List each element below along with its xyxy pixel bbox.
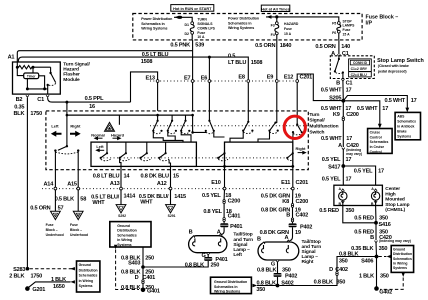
note box Ground Distribution Schematics (right) bbox=[391, 246, 413, 273]
svg-text:P402: P402 bbox=[300, 225, 312, 231]
svg-text:Schematics in: Schematics in bbox=[214, 285, 238, 289]
svg-text:F6: F6 bbox=[332, 31, 336, 35]
fuse HAZARD 15A bbox=[271, 17, 299, 40]
svg-text:HAZARD: HAZARD bbox=[284, 22, 299, 26]
resistor (flasher internal) bbox=[16, 62, 51, 69]
wire 0.5 YEL 17 to left CHMSL lamp bbox=[322, 166, 352, 185]
svg-text:WHT: WHT bbox=[140, 199, 153, 205]
off-page connector triangle S292 bbox=[116, 205, 126, 219]
svg-text:C402: C402 bbox=[296, 212, 309, 218]
svg-text:E9: E9 bbox=[267, 74, 274, 80]
wire S205 down to K9 C200 bbox=[342, 101, 344, 117]
wire 0.5 DK BLU/WHT 1415 (A12) bbox=[139, 189, 186, 205]
svg-text:and Turn: and Turn bbox=[233, 237, 253, 243]
node S416 bbox=[374, 221, 391, 228]
svg-text:250: 250 bbox=[145, 255, 154, 261]
wire 0.8 BLK 350 S402 to ground distribution bbox=[253, 284, 278, 288]
stop lamp switch dashed box bbox=[330, 56, 374, 79]
svg-text:Module: Module bbox=[63, 77, 80, 83]
note Power Distribution Schematics (left) bbox=[141, 17, 172, 31]
svg-text:in Antilock: in Antilock bbox=[397, 125, 414, 129]
svg-text:0.5: 0.5 bbox=[228, 53, 235, 59]
switch (flasher internal contacts) bbox=[47, 67, 56, 94]
routing staircase (internal) bbox=[153, 131, 269, 142]
pin E9 bbox=[267, 74, 278, 82]
svg-text:CORN LPS: CORN LPS bbox=[197, 26, 215, 30]
svg-text:P401: P401 bbox=[215, 257, 227, 263]
wire 0.8 BLK 250 S403 to D C401 bbox=[121, 267, 155, 284]
connector row C201 dotted (lower) bbox=[42, 188, 300, 190]
lower switch unit 5 bbox=[217, 152, 228, 161]
label Fuse Block Underhood (A14) bbox=[46, 223, 64, 237]
svg-text:in Wiring: in Wiring bbox=[117, 238, 132, 242]
wire 0.5 LT BLU 1508 line2 A1 to E8 bbox=[18, 57, 248, 79]
pin C1 (flasher) bbox=[37, 95, 49, 103]
wire 0.5 LT BLU 1508 label (mid) bbox=[141, 52, 169, 65]
svg-text:Signal/: Signal/ bbox=[309, 117, 325, 123]
svg-text:C200: C200 bbox=[346, 112, 359, 118]
switch unit 5 (E8) bbox=[242, 121, 253, 134]
label Fuse Block Underhood (A15) bbox=[70, 223, 88, 237]
wire 0.5 PNK 539 fuse to E7 bbox=[192, 40, 194, 111]
svg-text:High: High bbox=[385, 191, 396, 197]
svg-text:SIGNALS: SIGNALS bbox=[197, 22, 213, 26]
svg-text:P402: P402 bbox=[285, 274, 297, 280]
wire 0.8 BLK 350 branch S406 to D C402 bbox=[337, 251, 377, 271]
label Hot in RUN or START bbox=[171, 5, 214, 12]
lamp Tail/Stop and Turn Signal Left (oval) bbox=[189, 230, 227, 253]
svg-text:Underhood: Underhood bbox=[46, 233, 64, 237]
wire A15 exit bbox=[77, 151, 79, 188]
svg-text:B: B bbox=[371, 202, 374, 206]
svg-text:Right: Right bbox=[296, 146, 307, 151]
svg-text:Signal: Signal bbox=[302, 249, 316, 255]
svg-text:Schematics: Schematics bbox=[397, 120, 416, 124]
svg-text:0.5 WHT: 0.5 WHT bbox=[321, 106, 342, 112]
inner contact carrier box 1 bbox=[91, 142, 196, 166]
fuse TURN SIGNALS CORN LPS 10A bbox=[185, 18, 216, 40]
wire 0.5 ORN 57 (A14) bbox=[30, 189, 63, 211]
svg-text:E6: E6 bbox=[201, 75, 208, 81]
label Fuse Block - I/P bbox=[366, 14, 399, 26]
svg-text:1508: 1508 bbox=[141, 59, 153, 65]
svg-text:Turn Signal/: Turn Signal/ bbox=[63, 61, 90, 67]
svg-text:S406: S406 bbox=[361, 259, 373, 265]
svg-text:Wiring Systems: Wiring Systems bbox=[214, 290, 240, 294]
svg-text:Tail/Stop: Tail/Stop bbox=[233, 232, 252, 238]
label Tail/Stop and Turn Signal Lamp - Right bbox=[302, 239, 322, 265]
svg-text:C200: C200 bbox=[228, 198, 241, 204]
svg-text:0.5 WHT: 0.5 WHT bbox=[384, 98, 405, 104]
wire 0.5 LT BLU 1508 label (at E8 corner) bbox=[228, 53, 262, 65]
wire 0.8 BLK 250 S403 to left lamp ground bbox=[143, 261, 219, 268]
wire 2 BLK 1750 label bbox=[9, 273, 42, 279]
svg-text:350: 350 bbox=[337, 280, 346, 286]
svg-text:Lamp –: Lamp – bbox=[302, 254, 319, 260]
svg-text:B: B bbox=[77, 213, 79, 217]
svg-text:Fuse: Fuse bbox=[197, 31, 205, 35]
lamp Tail/Stop and Turn Signal Right (oval) bbox=[257, 237, 299, 261]
svg-text:A1: A1 bbox=[8, 54, 15, 60]
red highlight circle bbox=[284, 116, 305, 138]
svg-text:A: A bbox=[338, 143, 342, 149]
svg-text:C2=4 BLU: C2=4 BLU bbox=[351, 73, 368, 77]
svg-text:17: 17 bbox=[346, 136, 352, 142]
svg-text:D: D bbox=[329, 267, 333, 273]
wire E10 exit (DK GRN feed) bbox=[223, 165, 226, 188]
svg-text:Right: Right bbox=[302, 259, 314, 265]
svg-text:A: A bbox=[284, 235, 288, 241]
svg-text:Schematics: Schematics bbox=[370, 140, 389, 144]
svg-text:B: B bbox=[257, 237, 261, 243]
svg-text:A: A bbox=[54, 213, 56, 217]
svg-text:Right: Right bbox=[70, 124, 81, 129]
svg-text:17: 17 bbox=[345, 106, 351, 112]
note box Cruise Control Schematics in Cruise Control bbox=[368, 129, 393, 154]
note box Ground Distribution Schematics (lamp area) bbox=[211, 277, 252, 293]
svg-text:0.8 BLK: 0.8 BLK bbox=[314, 280, 333, 286]
svg-text:B2: B2 bbox=[16, 97, 23, 103]
svg-text:A: A bbox=[371, 187, 374, 191]
wire 0.5 WHT 17 to A C420 bbox=[321, 121, 352, 147]
svg-text:Turn: Turn bbox=[309, 112, 319, 118]
svg-text:1415: 1415 bbox=[174, 194, 186, 200]
svg-text:0.5 ORN: 0.5 ORN bbox=[30, 206, 50, 212]
svg-text:Hot at All Times: Hot at All Times bbox=[261, 7, 289, 11]
svg-text:(Closed with brake: (Closed with brake bbox=[378, 64, 409, 68]
svg-text:17: 17 bbox=[346, 176, 352, 182]
svg-text:Power Distribution: Power Distribution bbox=[141, 17, 172, 21]
svg-text:S205: S205 bbox=[329, 95, 341, 101]
svg-text:0.35: 0.35 bbox=[14, 105, 24, 111]
svg-text:B: B bbox=[336, 81, 340, 87]
svg-text:1750: 1750 bbox=[30, 111, 42, 117]
pin E11 + label C201 bbox=[281, 180, 308, 190]
svg-text:S291: S291 bbox=[168, 214, 176, 218]
svg-text:C200: C200 bbox=[296, 199, 309, 205]
node S283 bbox=[13, 267, 29, 273]
svg-text:Systems: Systems bbox=[397, 135, 411, 139]
svg-text:0.8 YEL: 0.8 YEL bbox=[203, 209, 222, 215]
svg-text:in Wiring: in Wiring bbox=[393, 262, 407, 266]
wire 1 BLK 350 S406 to G402 bbox=[359, 257, 389, 288]
svg-text:(CHMSL): (CHMSL) bbox=[385, 207, 405, 213]
svg-text:Mounted: Mounted bbox=[385, 197, 405, 203]
svg-text:Distribution: Distribution bbox=[79, 268, 98, 272]
svg-text:Fuse: Fuse bbox=[70, 223, 78, 227]
svg-text:Switch: Switch bbox=[309, 129, 324, 135]
svg-text:350: 350 bbox=[379, 246, 388, 252]
svg-text:Multifunction: Multifunction bbox=[309, 123, 338, 129]
label Right (turn lever) with arrow bbox=[70, 124, 81, 137]
wire 0.8 BLK 250 box to S403 bbox=[121, 247, 154, 267]
svg-text:0.8 BLK: 0.8 BLK bbox=[185, 262, 204, 268]
lower switch unit 6 (right) bbox=[286, 152, 294, 160]
svg-text:Lamp –: Lamp – bbox=[233, 247, 250, 253]
pin E7 bbox=[184, 75, 194, 82]
svg-text:10 A: 10 A bbox=[197, 35, 205, 39]
svg-text:LAMPS: LAMPS bbox=[343, 24, 356, 28]
svg-text:Hazard: Hazard bbox=[63, 67, 79, 73]
svg-text:15 A: 15 A bbox=[343, 33, 351, 37]
svg-text:Control: Control bbox=[370, 150, 382, 154]
svg-text:Timer: Timer bbox=[27, 75, 36, 79]
svg-text:S402: S402 bbox=[281, 281, 293, 287]
svg-text:Fuse: Fuse bbox=[46, 223, 54, 227]
switch linkage dotted line (upper) bbox=[150, 125, 308, 127]
svg-text:Fuse: Fuse bbox=[284, 27, 292, 31]
wire 0.5 WHT 17 branch to cruise bbox=[343, 101, 388, 129]
ground G401 bbox=[141, 288, 160, 295]
output bus segment bbox=[196, 165, 224, 167]
svg-text:0.5 WHT: 0.5 WHT bbox=[321, 88, 342, 94]
svg-text:0.8 DK BLU: 0.8 DK BLU bbox=[141, 174, 169, 180]
svg-text:K8: K8 bbox=[282, 199, 289, 205]
wire A13 exit bbox=[120, 159, 121, 188]
svg-text:C1: C1 bbox=[37, 97, 44, 103]
wire 0.35 BLK 1750 label bbox=[13, 105, 42, 117]
svg-text:E11: E11 bbox=[281, 180, 290, 186]
svg-text:Ground: Ground bbox=[117, 224, 130, 228]
pin B C1 (stop lamp switch) bbox=[336, 79, 352, 87]
wire 0.35 BLK 350 to S406 bbox=[351, 242, 387, 256]
svg-text:1650: 1650 bbox=[53, 284, 65, 290]
svg-text:E12: E12 bbox=[284, 74, 293, 80]
pin A14 bbox=[43, 182, 56, 190]
svg-text:E13: E13 bbox=[146, 75, 155, 81]
svg-text:G201: G201 bbox=[32, 287, 45, 293]
node S417 bbox=[328, 164, 345, 170]
wire 0.5 WHT 17 main label bbox=[321, 106, 352, 112]
wire 0.8 BLK 250 to G401 bbox=[121, 284, 154, 291]
svg-text:E8: E8 bbox=[238, 74, 245, 80]
wire 0.8 YEL 18 (E10) bbox=[203, 204, 231, 218]
wire 0.8 LT BLU 14 label (A13) bbox=[93, 174, 131, 180]
svg-text:0.5 WHT: 0.5 WHT bbox=[321, 136, 342, 142]
svg-text:0.5 PNK: 0.5 PNK bbox=[170, 43, 190, 49]
wire S205 branch to E12 bbox=[297, 74, 343, 124]
svg-text:1414: 1414 bbox=[124, 194, 137, 200]
svg-text:0.5 RED: 0.5 RED bbox=[354, 216, 374, 222]
off-page connector triangle B (to fuse block underhood) bbox=[73, 211, 83, 219]
svg-text:S416: S416 bbox=[379, 222, 391, 228]
svg-text:in Wiring: in Wiring bbox=[79, 279, 93, 283]
label Hazard with arrow bbox=[111, 133, 125, 141]
svg-text:D: D bbox=[135, 275, 139, 281]
label Hot at All Times bbox=[261, 5, 290, 11]
lamp CHMSL left bulb bbox=[338, 187, 347, 206]
wire 0.5 ORN 1840 fuse to E9 bbox=[276, 40, 278, 81]
wire LT BLU tee to E6 bbox=[208, 56, 211, 111]
svg-text:Schematics: Schematics bbox=[79, 274, 98, 278]
connector C201 dotted row (top) bbox=[150, 80, 297, 82]
svg-text:0.5 RED: 0.5 RED bbox=[319, 208, 339, 214]
switch blade (stop lamp switch) bbox=[334, 57, 344, 79]
svg-text:Signal: Signal bbox=[233, 242, 247, 248]
svg-text:P401: P401 bbox=[230, 224, 242, 230]
svg-text:17: 17 bbox=[378, 169, 384, 175]
switch unit 3 bbox=[180, 115, 190, 134]
node S406 bbox=[361, 255, 378, 265]
connector K9 C200 bbox=[333, 112, 359, 121]
svg-text:S283: S283 bbox=[13, 267, 25, 273]
wire E7 contact link bbox=[191, 115, 206, 134]
svg-text:Control: Control bbox=[370, 135, 382, 139]
svg-text:Center: Center bbox=[385, 186, 400, 192]
wire 0.5 RED 350 to B C420 bbox=[354, 223, 388, 240]
lower switch unit 2 bbox=[119, 142, 130, 161]
svg-text:Wiring Systems: Wiring Systems bbox=[228, 26, 254, 30]
turn switch wiper (left/right contacts) bbox=[54, 145, 79, 154]
wire E9 into switch bbox=[276, 83, 277, 123]
connector D C402 bbox=[329, 267, 348, 275]
svg-text:Schematics in: Schematics in bbox=[228, 21, 252, 25]
svg-text:58: 58 bbox=[80, 196, 86, 202]
wire PPL zigzag C1 to E13 bbox=[131, 72, 158, 111]
inner contact carrier box 2 bbox=[225, 142, 293, 166]
svg-text:250: 250 bbox=[211, 262, 220, 268]
svg-text:E10: E10 bbox=[211, 180, 220, 186]
off-page connector triangle A (to fuse block underhood) bbox=[51, 211, 61, 219]
hazard warning triangle bbox=[105, 122, 115, 131]
wire E11 exit (DK GRN) bbox=[291, 133, 294, 188]
note box Ground Distribution Schematics (bottom-left) bbox=[77, 261, 100, 292]
svg-text:Cruise: Cruise bbox=[370, 131, 381, 135]
lower switch unit 1 bbox=[100, 142, 111, 161]
svg-text:15 A: 15 A bbox=[284, 32, 292, 36]
arrow to power distribution (middle) + feed line bbox=[266, 15, 339, 22]
svg-text:140: 140 bbox=[341, 44, 350, 50]
svg-text:Schematics: Schematics bbox=[117, 233, 137, 237]
wire 0.5 YEL 18 (E10) bbox=[202, 189, 231, 199]
svg-text:(Indexing may vary): (Indexing may vary) bbox=[379, 239, 411, 243]
wire 0.5 ORN 140 to stop lamp switch bbox=[338, 40, 340, 55]
svg-text:0.5 YEL: 0.5 YEL bbox=[322, 157, 341, 163]
wire 0.5 LT BLU/WHT 1414 (A13) bbox=[91, 189, 136, 206]
svg-text:B: B bbox=[286, 212, 290, 218]
switch unit 1 (from E13) bbox=[152, 115, 162, 134]
svg-text:0.5 PPL: 0.5 PPL bbox=[85, 96, 104, 102]
label Left (turn lever) with arrow bbox=[51, 124, 62, 137]
svg-text:C1: C1 bbox=[346, 81, 353, 87]
dashed reference ground distribution to G401 bbox=[114, 245, 139, 290]
svg-text:Distribution: Distribution bbox=[393, 252, 412, 256]
wire E8 into switch bbox=[247, 83, 249, 122]
wire 0.5 RED 350 right lamp to S416 bbox=[354, 206, 388, 223]
wire A12 exit bbox=[169, 160, 170, 188]
connector C200 (E10) bbox=[223, 198, 240, 204]
svg-text:350: 350 bbox=[346, 208, 355, 214]
pin A12 bbox=[157, 181, 172, 190]
lower switch unit 3 bbox=[139, 142, 150, 161]
wire 0.5 ORN 1840 label bbox=[255, 43, 291, 49]
svg-text:350: 350 bbox=[256, 287, 265, 293]
svg-text:19: 19 bbox=[295, 230, 301, 236]
CHMSL box bbox=[334, 185, 383, 205]
label Turn Signal/Hazard Flasher Module bbox=[63, 61, 90, 83]
switch linkage dotted line (lower) bbox=[100, 157, 290, 159]
svg-text:0.8 BLK: 0.8 BLK bbox=[257, 267, 276, 273]
switch unit 4 (E6) bbox=[205, 111, 215, 134]
switch unit 2 bbox=[167, 115, 177, 134]
svg-text:Power Distribution: Power Distribution bbox=[228, 17, 259, 21]
dashed reference S406 to ground distribution bbox=[378, 255, 391, 258]
pin E6 bbox=[201, 75, 211, 82]
wire B2 to S283 bbox=[26, 98, 28, 269]
svg-text:Block –: Block – bbox=[70, 228, 82, 232]
fuse STOP LAMPS 15A bbox=[332, 19, 355, 40]
svg-text:S292: S292 bbox=[118, 214, 126, 218]
svg-text:17: 17 bbox=[346, 88, 352, 94]
pin E13 bbox=[146, 75, 159, 82]
svg-text:Left: Left bbox=[51, 124, 59, 129]
svg-text:Brake: Brake bbox=[397, 130, 407, 134]
svg-text:Underhood: Underhood bbox=[70, 233, 88, 237]
svg-text:350: 350 bbox=[282, 267, 291, 273]
svg-text:B: B bbox=[370, 235, 374, 241]
connector K8 C200 bbox=[282, 199, 308, 207]
svg-text:B: B bbox=[189, 230, 193, 236]
svg-text:1 BLK: 1 BLK bbox=[51, 277, 66, 283]
svg-text:Stop Lamp: Stop Lamp bbox=[385, 202, 409, 208]
svg-text:Ground: Ground bbox=[79, 263, 91, 267]
arrow to power distribution (left) bbox=[174, 15, 192, 21]
svg-text:1840: 1840 bbox=[280, 43, 292, 49]
svg-text:1 BLK: 1 BLK bbox=[359, 274, 374, 280]
switch unit 6 (E9) bbox=[268, 122, 278, 134]
svg-text:0.8 LT BLU: 0.8 LT BLU bbox=[93, 174, 120, 180]
dashed reference G402 to ground distribution bbox=[380, 273, 405, 290]
note box ABS Schematics in Antilock Brake Systems bbox=[395, 112, 420, 139]
svg-text:Left: Left bbox=[233, 252, 242, 258]
svg-text:D2: D2 bbox=[185, 32, 190, 36]
note Power Distribution Schematics (middle) bbox=[228, 17, 259, 31]
node S403 bbox=[128, 261, 145, 269]
svg-text:15: 15 bbox=[173, 174, 179, 180]
wire to left lamp pin A bbox=[217, 227, 224, 235]
svg-text:BLK: BLK bbox=[13, 111, 24, 117]
svg-text:C1=2 GRY: C1=2 GRY bbox=[351, 67, 368, 71]
wire 0.5 YEL 17 branch to right CHMSL lamp bbox=[343, 166, 384, 185]
svg-text:G401: G401 bbox=[147, 288, 160, 294]
svg-text:Schematics in: Schematics in bbox=[141, 22, 165, 26]
wire PNK feed line1 to A1 bbox=[17, 51, 192, 62]
label Normal with arrow bbox=[91, 133, 104, 141]
svg-text:F5: F5 bbox=[332, 21, 336, 25]
svg-text:in Cruise: in Cruise bbox=[370, 145, 385, 149]
svg-text:D1: D1 bbox=[185, 23, 190, 27]
inline connector P402 bbox=[289, 222, 313, 231]
svg-text:Fuse: Fuse bbox=[343, 28, 351, 32]
svg-text:A15: A15 bbox=[67, 182, 77, 188]
wire 0.8 DK BLU 15 label (A12) bbox=[141, 174, 179, 180]
svg-text:Systems: Systems bbox=[393, 266, 407, 270]
left lamp ground pin G and P401 bbox=[201, 253, 227, 263]
svg-text:350: 350 bbox=[339, 259, 348, 265]
svg-text:S417: S417 bbox=[328, 164, 340, 170]
wire 0.8 DK GRN 19 (E11) bbox=[261, 207, 301, 218]
dashed reference S283 to ground distribution bbox=[30, 267, 75, 270]
off-page connector triangle S291 bbox=[166, 205, 176, 219]
lower switch unit 4 bbox=[158, 142, 169, 161]
svg-text:Ground Distribution: Ground Distribution bbox=[214, 280, 247, 284]
svg-text:17: 17 bbox=[382, 106, 388, 112]
node S402 bbox=[256, 277, 293, 293]
svg-text:ABS: ABS bbox=[397, 115, 405, 119]
connector B C402 bbox=[286, 212, 308, 222]
svg-text:Wiring Systems: Wiring Systems bbox=[141, 27, 167, 31]
svg-text:F3: F3 bbox=[271, 23, 275, 27]
